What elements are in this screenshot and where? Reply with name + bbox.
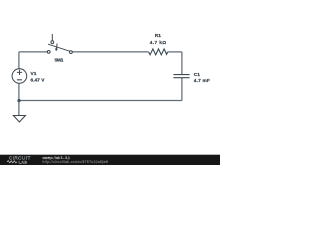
wire capacitor C1 to bottom rail xyxy=(181,78,183,101)
svg-text:V1: V1 xyxy=(31,71,37,77)
svg-text:4.7 mF: 4.7 mF xyxy=(194,78,210,84)
svg-text:R1: R1 xyxy=(155,33,161,39)
wire right rail down to capacitor C1 xyxy=(181,52,183,75)
wire bottom rail xyxy=(19,100,182,102)
voltage source V1 xyxy=(12,69,27,84)
wire switch SW1 to resistor R1 xyxy=(72,51,148,53)
wire V1 bottom to ground xyxy=(18,83,20,115)
switch SW1 arrow head xyxy=(55,48,58,51)
svg-text:SW1: SW1 xyxy=(54,58,63,64)
svg-text:LAB: LAB xyxy=(19,160,28,164)
resistor R1 xyxy=(149,49,168,55)
footer logo resistor glyph xyxy=(7,161,17,163)
wire top-left horizontal (to switch SW1 left terminal) xyxy=(19,51,47,53)
svg-text:6.47 V: 6.47 V xyxy=(31,77,46,83)
wire top-left vertical (V1 top to top rail) xyxy=(18,52,20,69)
ground xyxy=(13,116,25,123)
svg-text:http://circuitlab.com/c/8767u3: http://circuitlab.com/c/8767u32a6jw8 xyxy=(42,160,108,164)
wire resistor R1 to top-right corner xyxy=(168,51,182,53)
svg-text:4.7 kΩ: 4.7 kΩ xyxy=(150,40,166,46)
footer bar xyxy=(0,155,220,165)
switch SW1 xyxy=(47,34,72,53)
svg-text:C1: C1 xyxy=(194,72,200,78)
canvas background xyxy=(0,0,220,165)
capacitor C1 xyxy=(173,75,189,78)
node junction at bottom rail / ground xyxy=(17,99,20,102)
